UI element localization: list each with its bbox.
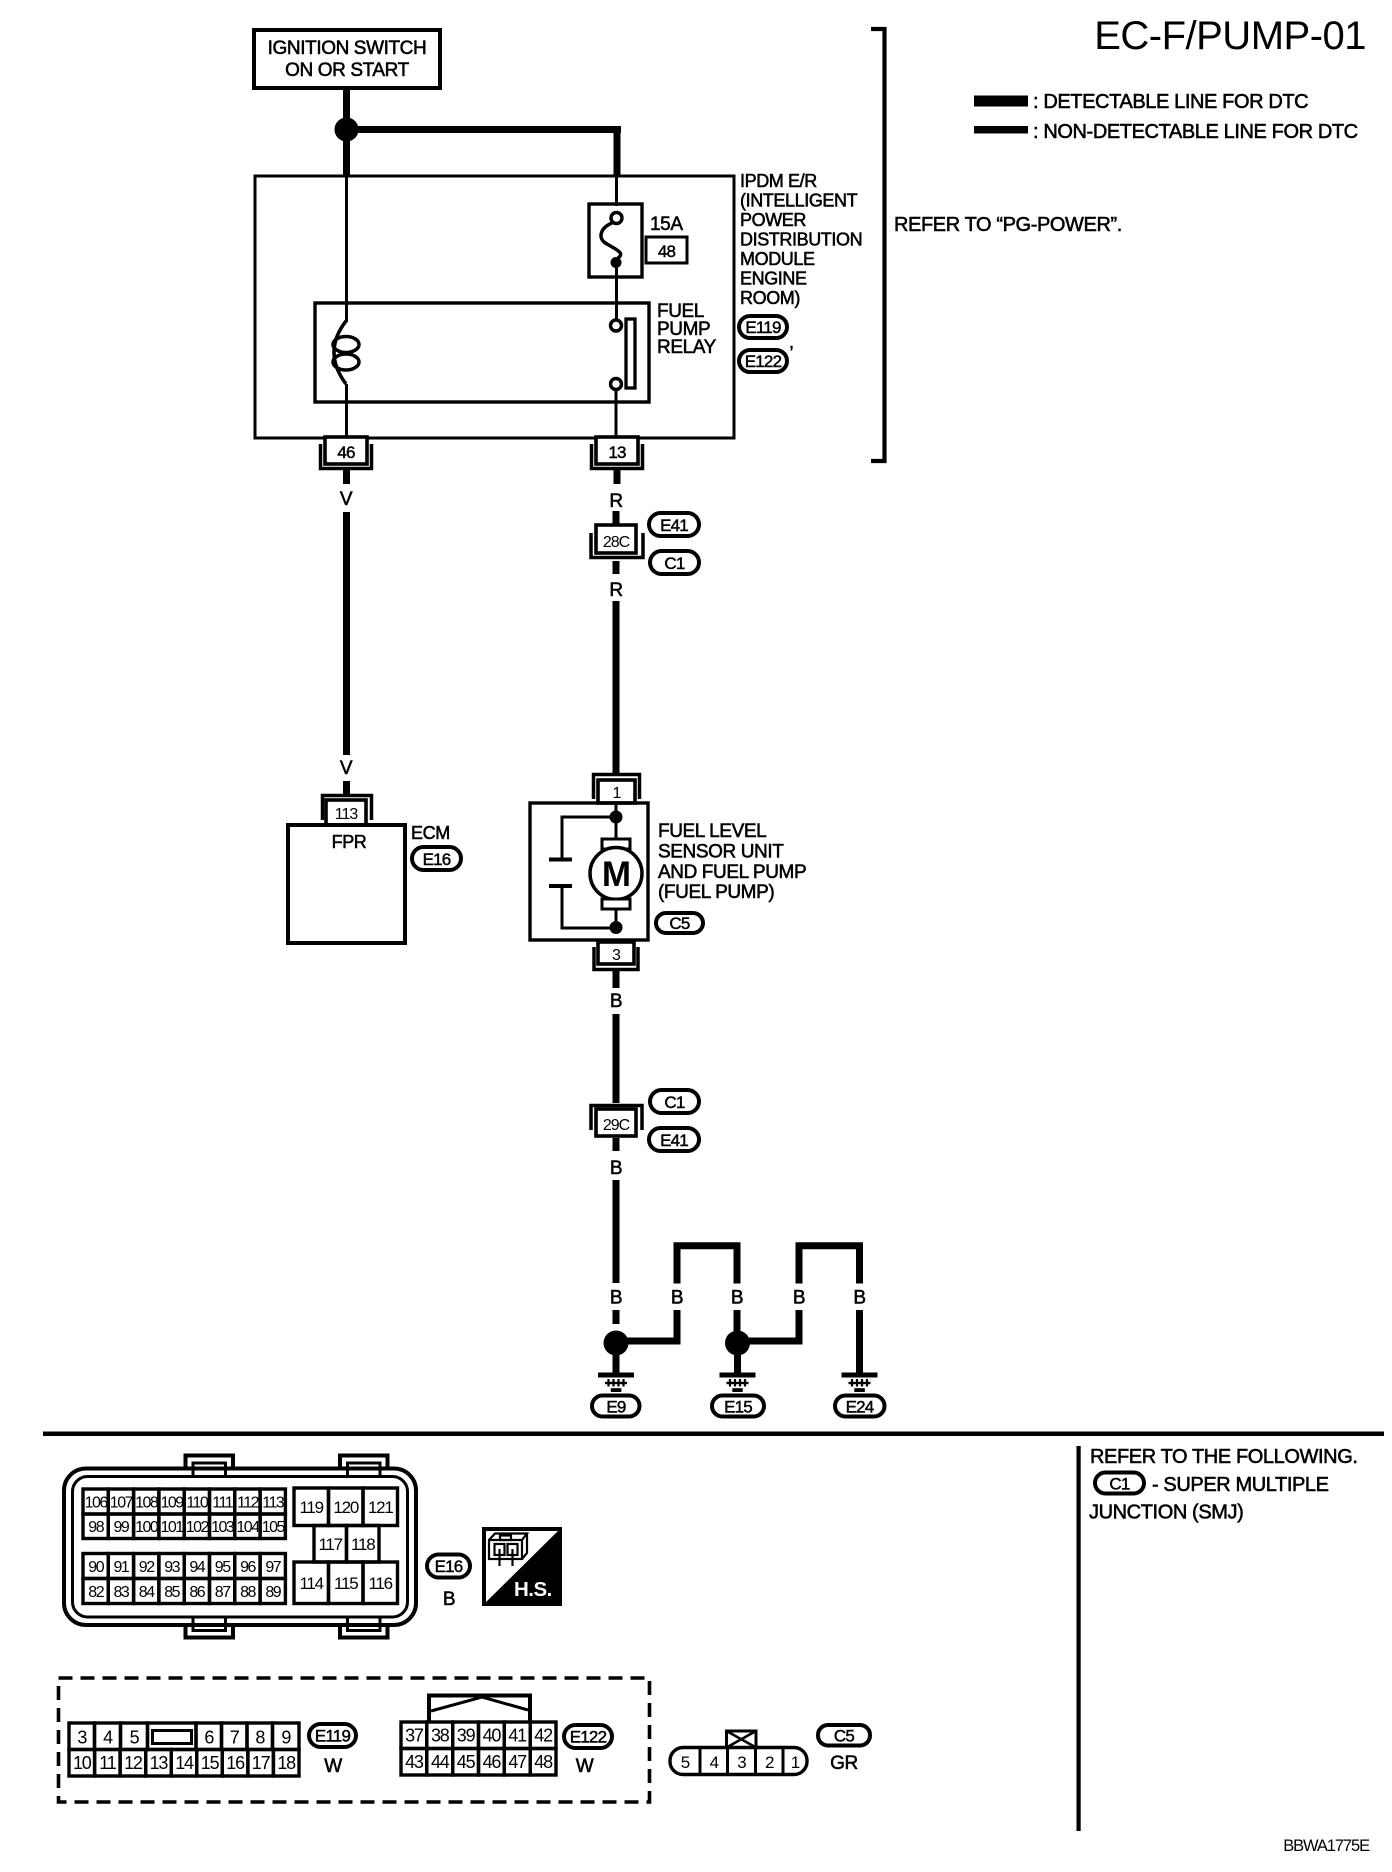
svg-text:113: 113 bbox=[335, 806, 359, 823]
capacitor plates bbox=[549, 858, 572, 889]
svg-text:DISTRIBUTION: DISTRIBUTION bbox=[740, 230, 862, 250]
wire color label V bbox=[340, 758, 353, 779]
note refer to the following bbox=[1090, 1446, 1358, 1468]
svg-text:GR: GR bbox=[830, 1753, 858, 1774]
svg-text:98: 98 bbox=[88, 1519, 104, 1536]
ground E15 oval bbox=[712, 1396, 764, 1417]
wire down to IPDM fuse input bbox=[614, 126, 621, 176]
svg-text:117: 117 bbox=[318, 1535, 342, 1554]
svg-text:104: 104 bbox=[236, 1519, 260, 1536]
svg-text:102: 102 bbox=[186, 1519, 210, 1536]
connector E122 color label W bbox=[576, 1756, 594, 1777]
svg-text:B: B bbox=[443, 1589, 455, 1610]
ground bridge 1 bbox=[677, 1246, 737, 1284]
svg-text:119: 119 bbox=[299, 1498, 323, 1517]
wire color label V bbox=[340, 489, 353, 510]
wire IPDM input to relay coil bbox=[345, 176, 348, 322]
svg-text:97: 97 bbox=[265, 1559, 281, 1576]
ground E9 oval bbox=[592, 1396, 640, 1417]
svg-text:114: 114 bbox=[299, 1574, 323, 1593]
svg-text:103: 103 bbox=[211, 1519, 235, 1536]
svg-text:84: 84 bbox=[139, 1584, 155, 1601]
svg-text:E16: E16 bbox=[423, 850, 451, 869]
svg-text:91: 91 bbox=[114, 1559, 130, 1576]
connector E122 oval label bbox=[564, 1725, 612, 1748]
svg-text:: DETECTABLE LINE FOR DTC: : DETECTABLE LINE FOR DTC bbox=[1033, 91, 1308, 113]
svg-text:E122: E122 bbox=[745, 352, 782, 371]
wire color label B bbox=[610, 1288, 622, 1309]
svg-text:W: W bbox=[324, 1756, 342, 1777]
wire pin 3 stub bbox=[613, 970, 620, 988]
svg-text:C1: C1 bbox=[664, 1093, 684, 1112]
svg-text:47: 47 bbox=[508, 1752, 527, 1772]
connector C1 oval label bbox=[650, 551, 699, 574]
note super multiple junction bbox=[1152, 1474, 1329, 1496]
label fuel pump relay bbox=[657, 301, 717, 358]
svg-text:B: B bbox=[610, 1288, 622, 1309]
svg-text:- SUPER MULTIPLE: - SUPER MULTIPLE bbox=[1152, 1474, 1329, 1496]
IPDM E/R box bbox=[255, 176, 734, 438]
svg-text:B: B bbox=[731, 1288, 743, 1309]
svg-text:90: 90 bbox=[88, 1559, 104, 1576]
E16 terminal grid 114-116 bbox=[294, 1562, 398, 1604]
connector top tab 2 bbox=[340, 1456, 388, 1479]
svg-text:111: 111 bbox=[212, 1494, 233, 1511]
svg-text:93: 93 bbox=[164, 1559, 180, 1576]
svg-text:B: B bbox=[671, 1288, 683, 1309]
wire bridge1 right to node E15 bbox=[734, 1310, 741, 1336]
connector top tab 1 bbox=[186, 1456, 234, 1479]
svg-text:7: 7 bbox=[230, 1728, 240, 1748]
connector E16 oval label bbox=[412, 847, 461, 870]
wire capacitor branch bottom bbox=[562, 888, 616, 928]
svg-text:44: 44 bbox=[431, 1752, 450, 1772]
note REFER TO PG-POWER bbox=[894, 214, 1122, 236]
node motor top junction bbox=[610, 811, 623, 824]
wire 29C stub below bbox=[613, 1138, 620, 1151]
connector C5 oval label bbox=[818, 1725, 870, 1746]
svg-text:ROOM): ROOM) bbox=[740, 288, 800, 308]
svg-text:ENGINE: ENGINE bbox=[740, 269, 807, 289]
svg-text:112: 112 bbox=[237, 1494, 260, 1511]
wire ignition switch to junction bbox=[343, 88, 350, 119]
svg-text:10: 10 bbox=[73, 1753, 92, 1773]
svg-text:V: V bbox=[340, 758, 353, 779]
H.S. view icon bbox=[484, 1529, 560, 1604]
ECM connector E16 body bbox=[64, 1469, 416, 1626]
fuse 15A box bbox=[589, 204, 642, 277]
svg-text:12: 12 bbox=[124, 1753, 143, 1773]
svg-text:3: 3 bbox=[737, 1753, 746, 1772]
connector color label B bbox=[443, 1589, 455, 1610]
connector E122 hood bbox=[429, 1696, 530, 1723]
svg-text:48: 48 bbox=[534, 1752, 553, 1772]
svg-text:,: , bbox=[789, 332, 794, 352]
ECM box bbox=[288, 825, 405, 943]
svg-text:15A: 15A bbox=[650, 214, 683, 235]
wire R to SMJ 28C bbox=[613, 511, 620, 525]
E16 terminal grid rows 106-113 bbox=[83, 1489, 285, 1514]
wire junction down to IPDM coil input bbox=[343, 133, 350, 176]
svg-text:R: R bbox=[609, 491, 622, 512]
svg-text:V: V bbox=[340, 489, 353, 510]
wire color label R bbox=[609, 491, 622, 512]
svg-text:87: 87 bbox=[215, 1584, 231, 1601]
svg-text:B: B bbox=[610, 991, 622, 1012]
svg-text:IGNITION SWITCH: IGNITION SWITCH bbox=[268, 38, 427, 59]
svg-text:17: 17 bbox=[252, 1753, 271, 1773]
svg-text:16: 16 bbox=[226, 1753, 245, 1773]
fuse number box 48 bbox=[646, 237, 687, 263]
fuel pump relay box bbox=[315, 303, 649, 402]
svg-text:8: 8 bbox=[255, 1728, 265, 1748]
drawing code BBWA1775E bbox=[1283, 1837, 1370, 1855]
svg-text:ECM: ECM bbox=[411, 823, 450, 843]
junction node A bbox=[335, 118, 359, 142]
svg-text:88: 88 bbox=[240, 1584, 256, 1601]
wire fuse to relay contact bbox=[615, 268, 618, 320]
dashed box around IPDM connectors bbox=[59, 1678, 650, 1802]
svg-text:37: 37 bbox=[405, 1726, 424, 1746]
relay contact bbox=[611, 319, 636, 390]
svg-text:121: 121 bbox=[368, 1498, 394, 1517]
svg-text:AND FUEL PUMP: AND FUEL PUMP bbox=[658, 862, 806, 883]
svg-text:E15: E15 bbox=[724, 1398, 752, 1417]
svg-text:E9: E9 bbox=[606, 1398, 626, 1417]
svg-text:E41: E41 bbox=[660, 1131, 688, 1150]
node ground junction E9 bbox=[604, 1331, 629, 1356]
svg-text:41: 41 bbox=[508, 1726, 527, 1746]
svg-text:29C: 29C bbox=[603, 1117, 630, 1134]
E16 terminal grid rows 82-89 bbox=[83, 1579, 285, 1604]
svg-text:107: 107 bbox=[110, 1494, 134, 1511]
wire color label R bbox=[609, 580, 622, 601]
pin 3 (fuel pump) bbox=[594, 942, 638, 970]
svg-text:89: 89 bbox=[265, 1584, 281, 1601]
svg-text:B: B bbox=[610, 1158, 622, 1179]
wire color label B bbox=[671, 1288, 683, 1309]
ground symbol E9 bbox=[598, 1355, 634, 1392]
svg-text:W: W bbox=[576, 1756, 594, 1777]
svg-text:95: 95 bbox=[215, 1559, 231, 1576]
svg-text:28C: 28C bbox=[603, 534, 630, 551]
pin 13 bbox=[592, 437, 643, 469]
svg-text:39: 39 bbox=[457, 1726, 476, 1746]
fuse element bbox=[601, 213, 622, 269]
svg-text:18: 18 bbox=[277, 1753, 296, 1773]
connector E122 oval label bbox=[739, 350, 787, 372]
svg-text:9: 9 bbox=[281, 1728, 291, 1748]
svg-text:108: 108 bbox=[135, 1494, 159, 1511]
SMJ terminal 29C bbox=[591, 1106, 642, 1137]
svg-text:99: 99 bbox=[114, 1519, 130, 1536]
SMJ terminal 28C bbox=[591, 525, 643, 558]
pin 1 (fuel pump) bbox=[594, 775, 640, 804]
wire B stub to ground node E9 bbox=[613, 1310, 620, 1324]
svg-text:110: 110 bbox=[186, 1494, 209, 1511]
svg-text:120: 120 bbox=[333, 1498, 359, 1517]
wire color label B bbox=[610, 1158, 622, 1179]
svg-text:38: 38 bbox=[431, 1726, 450, 1746]
wire bridge2 left to node E15 bbox=[745, 1310, 799, 1341]
svg-text:5: 5 bbox=[130, 1728, 140, 1748]
svg-text:15: 15 bbox=[201, 1753, 220, 1773]
svg-text:IPDM E/R: IPDM E/R bbox=[740, 171, 817, 191]
svg-text:82: 82 bbox=[88, 1584, 104, 1601]
svg-text:3: 3 bbox=[612, 947, 621, 964]
connector E16 oval label bbox=[427, 1555, 470, 1578]
motor M (fuel pump) bbox=[590, 839, 642, 909]
svg-text:85: 85 bbox=[164, 1584, 180, 1601]
svg-text:116: 116 bbox=[368, 1574, 392, 1593]
wire pin 46 stub bbox=[343, 470, 350, 484]
svg-text:105: 105 bbox=[262, 1519, 286, 1536]
svg-text:C1: C1 bbox=[1109, 1475, 1129, 1494]
connector E41 oval label bbox=[649, 1128, 699, 1151]
svg-text:94: 94 bbox=[189, 1559, 205, 1576]
svg-text:POWER: POWER bbox=[740, 210, 806, 230]
svg-text:86: 86 bbox=[189, 1584, 205, 1601]
legend non-detectable label bbox=[1033, 121, 1358, 143]
wire B run to ground junction bbox=[613, 1180, 620, 1283]
svg-text:FUEL LEVEL: FUEL LEVEL bbox=[658, 821, 766, 842]
svg-text:MODULE: MODULE bbox=[740, 249, 815, 269]
pin 46 bbox=[321, 437, 372, 469]
svg-text:ON OR START: ON OR START bbox=[285, 60, 409, 81]
label fuel level sensor unit bbox=[658, 821, 806, 903]
wire motor to bottom junction bbox=[615, 909, 618, 928]
svg-text:E119: E119 bbox=[745, 318, 781, 337]
svg-text:B: B bbox=[793, 1288, 805, 1309]
svg-text:E122: E122 bbox=[570, 1728, 607, 1747]
relay coil bbox=[333, 321, 359, 384]
wire junction to fuse branch (horizontal) bbox=[343, 126, 621, 133]
svg-text:100: 100 bbox=[135, 1519, 159, 1536]
wire capacitor branch top bbox=[562, 817, 616, 858]
wire color label B bbox=[610, 991, 622, 1012]
svg-text:M: M bbox=[602, 855, 630, 894]
svg-text:C5: C5 bbox=[834, 1727, 854, 1746]
connector bottom tab 1 bbox=[186, 1616, 234, 1638]
fuse value label 15A bbox=[650, 214, 683, 235]
svg-text:: NON-DETECTABLE LINE FOR DTC: : NON-DETECTABLE LINE FOR DTC bbox=[1033, 121, 1358, 143]
connector C5 keyway box bbox=[727, 1731, 757, 1748]
connector bottom tab 2 bbox=[340, 1616, 388, 1638]
node motor bottom junction bbox=[610, 921, 623, 934]
svg-text:REFER TO “PG-POWER”.: REFER TO “PG-POWER”. bbox=[894, 214, 1122, 236]
fuel level sensor unit and fuel pump box bbox=[530, 803, 648, 940]
svg-text:R: R bbox=[609, 580, 622, 601]
connector C5 color label GR bbox=[830, 1753, 858, 1774]
wire pin 13 stub bbox=[614, 470, 621, 484]
legend detectable line sample bbox=[974, 96, 1028, 107]
connector E41 oval label bbox=[649, 513, 699, 536]
svg-text:14: 14 bbox=[175, 1753, 194, 1773]
svg-text:13: 13 bbox=[150, 1753, 169, 1773]
wire B to SMJ 29C bbox=[613, 1014, 620, 1103]
wire bridge1 left to node E9 bbox=[622, 1310, 677, 1341]
svg-text:118: 118 bbox=[351, 1535, 375, 1554]
svg-text:EC-F/PUMP-01: EC-F/PUMP-01 bbox=[1094, 14, 1366, 58]
svg-text:11: 11 bbox=[99, 1753, 116, 1773]
E16 terminal grid 119-121 bbox=[294, 1488, 398, 1526]
connector C1 oval label bbox=[1095, 1473, 1144, 1494]
svg-text:3: 3 bbox=[77, 1728, 87, 1748]
svg-text:46: 46 bbox=[483, 1752, 502, 1772]
wire color label B bbox=[731, 1288, 743, 1309]
svg-text:E16: E16 bbox=[435, 1557, 463, 1576]
wire color label B bbox=[793, 1288, 805, 1309]
pin 113 (ECM FPR) bbox=[323, 796, 372, 826]
svg-text:48: 48 bbox=[658, 242, 676, 261]
svg-text:BBWA1775E: BBWA1775E bbox=[1283, 1837, 1370, 1855]
svg-text:E41: E41 bbox=[660, 516, 688, 535]
svg-text:92: 92 bbox=[139, 1559, 155, 1576]
connector C5 oval label bbox=[656, 913, 703, 933]
connector E119 terminal grid top row bbox=[69, 1723, 299, 1750]
svg-text:C5: C5 bbox=[669, 914, 689, 933]
svg-text:13: 13 bbox=[608, 443, 626, 462]
wire relay coil to pin 46 bbox=[345, 384, 348, 437]
connector E119 color label W bbox=[324, 1756, 342, 1777]
wire V run to ECM bbox=[343, 512, 350, 755]
ground symbol E15 bbox=[720, 1355, 756, 1392]
label FPR bbox=[332, 832, 367, 852]
connector C1 oval label bbox=[650, 1090, 699, 1113]
svg-text:45: 45 bbox=[457, 1752, 476, 1772]
wire V stub to pin 113 bbox=[343, 781, 350, 795]
svg-text:106: 106 bbox=[85, 1494, 109, 1511]
svg-text:JUNCTION (SMJ): JUNCTION (SMJ) bbox=[1089, 1502, 1243, 1524]
svg-text:40: 40 bbox=[483, 1726, 502, 1746]
ground E24 oval bbox=[835, 1396, 885, 1417]
svg-text:96: 96 bbox=[240, 1559, 256, 1576]
title EC-F/PUMP-01 bbox=[1094, 14, 1366, 58]
ignition switch box bbox=[254, 30, 440, 88]
svg-text:SENSOR UNIT: SENSOR UNIT bbox=[658, 842, 784, 863]
svg-text:6: 6 bbox=[204, 1728, 214, 1748]
svg-text:(INTELLIGENT: (INTELLIGENT bbox=[740, 191, 858, 211]
separator line bbox=[43, 1432, 1384, 1437]
wire bridge2 right to ground E24 bbox=[856, 1310, 863, 1375]
node ground junction E15 bbox=[725, 1331, 750, 1356]
ground bridge 2 bbox=[799, 1246, 860, 1284]
svg-text:46: 46 bbox=[337, 443, 355, 462]
svg-text:REFER TO THE FOLLOWING.: REFER TO THE FOLLOWING. bbox=[1090, 1446, 1358, 1468]
wire R run to fuel pump bbox=[613, 601, 620, 773]
label ECM bbox=[411, 823, 450, 843]
svg-text:113: 113 bbox=[262, 1494, 285, 1511]
svg-text:(FUEL PUMP): (FUEL PUMP) bbox=[658, 882, 774, 903]
wire pin1 to motor bbox=[615, 803, 618, 839]
svg-text:4: 4 bbox=[710, 1753, 719, 1772]
svg-text:43: 43 bbox=[405, 1752, 424, 1772]
svg-text:2: 2 bbox=[765, 1753, 774, 1772]
connector E122 terminal grid bottom row 43-48 bbox=[401, 1749, 556, 1776]
connector E119 terminal grid bottom row bbox=[69, 1750, 299, 1777]
svg-text:5: 5 bbox=[681, 1753, 690, 1772]
svg-text:RELAY: RELAY bbox=[657, 337, 717, 358]
svg-text:101: 101 bbox=[160, 1519, 184, 1536]
wire IPDM input to fuse bbox=[615, 176, 618, 206]
connector C5 body bbox=[670, 1748, 807, 1775]
wire 28C stub below bbox=[613, 561, 620, 574]
ground symbol E24 bbox=[842, 1373, 878, 1393]
svg-text:1: 1 bbox=[791, 1753, 800, 1772]
label IPDM E/R bbox=[740, 171, 862, 308]
svg-text:109: 109 bbox=[160, 1494, 184, 1511]
svg-text:1: 1 bbox=[613, 785, 622, 802]
svg-text:B: B bbox=[853, 1288, 865, 1309]
svg-text:FPR: FPR bbox=[332, 832, 367, 852]
bracket for IPDM refer note bbox=[871, 29, 885, 461]
connector E119 oval label bbox=[309, 1724, 356, 1747]
svg-text:E119: E119 bbox=[315, 1727, 351, 1746]
svg-text:4: 4 bbox=[103, 1728, 113, 1748]
E16 terminal grid rows 98-105 bbox=[83, 1514, 285, 1539]
svg-text:42: 42 bbox=[534, 1726, 553, 1746]
svg-text:C1: C1 bbox=[664, 554, 684, 573]
wire color label B bbox=[853, 1288, 865, 1309]
legend detectable label bbox=[1033, 91, 1308, 113]
svg-text:115: 115 bbox=[334, 1574, 358, 1593]
wire relay contact to pin 13 bbox=[615, 389, 618, 437]
legend non-detectable line sample bbox=[974, 126, 1028, 134]
connector E119 oval label bbox=[739, 316, 794, 352]
refer column divider bbox=[1077, 1446, 1081, 1831]
connector E122 terminal grid top row 37-42 bbox=[401, 1722, 556, 1749]
E16 terminal grid rows 90-97 bbox=[83, 1554, 285, 1579]
E16 terminal grid 117-118 bbox=[314, 1526, 379, 1563]
svg-text:E24: E24 bbox=[846, 1398, 874, 1417]
svg-text:H.S.: H.S. bbox=[514, 1578, 552, 1601]
svg-text:83: 83 bbox=[114, 1584, 130, 1601]
